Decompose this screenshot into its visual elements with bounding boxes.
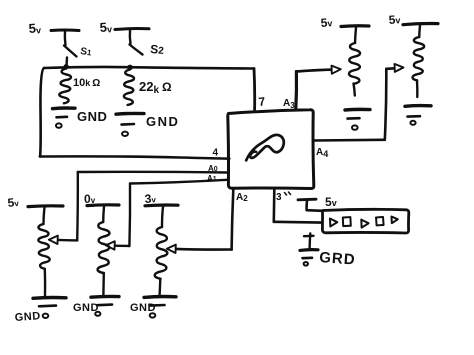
svg-text:3v: 3v	[144, 191, 157, 206]
svg-text:4: 4	[213, 148, 219, 159]
svg-text:S1: S1	[80, 46, 93, 59]
svg-text:A3: A3	[283, 98, 295, 110]
svg-text:3: 3	[276, 192, 282, 203]
svg-text:GND: GND	[77, 109, 107, 124]
svg-text:5v: 5v	[7, 195, 20, 210]
svg-text:GND: GND	[146, 114, 179, 129]
svg-text:10kΩ: 10kΩ	[73, 77, 100, 89]
svg-text:GND: GND	[130, 302, 156, 314]
svg-text:7: 7	[258, 94, 266, 109]
svg-text:A4: A4	[316, 147, 328, 159]
svg-text:0v: 0v	[84, 192, 96, 206]
svg-text:S2: S2	[150, 42, 165, 57]
svg-text:GND: GND	[73, 302, 99, 314]
svg-text:5v: 5v	[388, 12, 401, 27]
svg-text:5v: 5v	[320, 15, 333, 30]
svg-text:5v: 5v	[325, 195, 337, 209]
svg-text:5v: 5v	[28, 20, 41, 36]
svg-text:22kΩ: 22kΩ	[139, 79, 172, 96]
svg-text:GRD: GRD	[319, 249, 356, 268]
svg-text:A0: A0	[208, 164, 218, 173]
svg-text:GND: GND	[14, 310, 41, 324]
svg-text:A2: A2	[236, 192, 248, 203]
svg-text:A1: A1	[207, 174, 217, 183]
svg-text:5v: 5v	[99, 19, 112, 35]
